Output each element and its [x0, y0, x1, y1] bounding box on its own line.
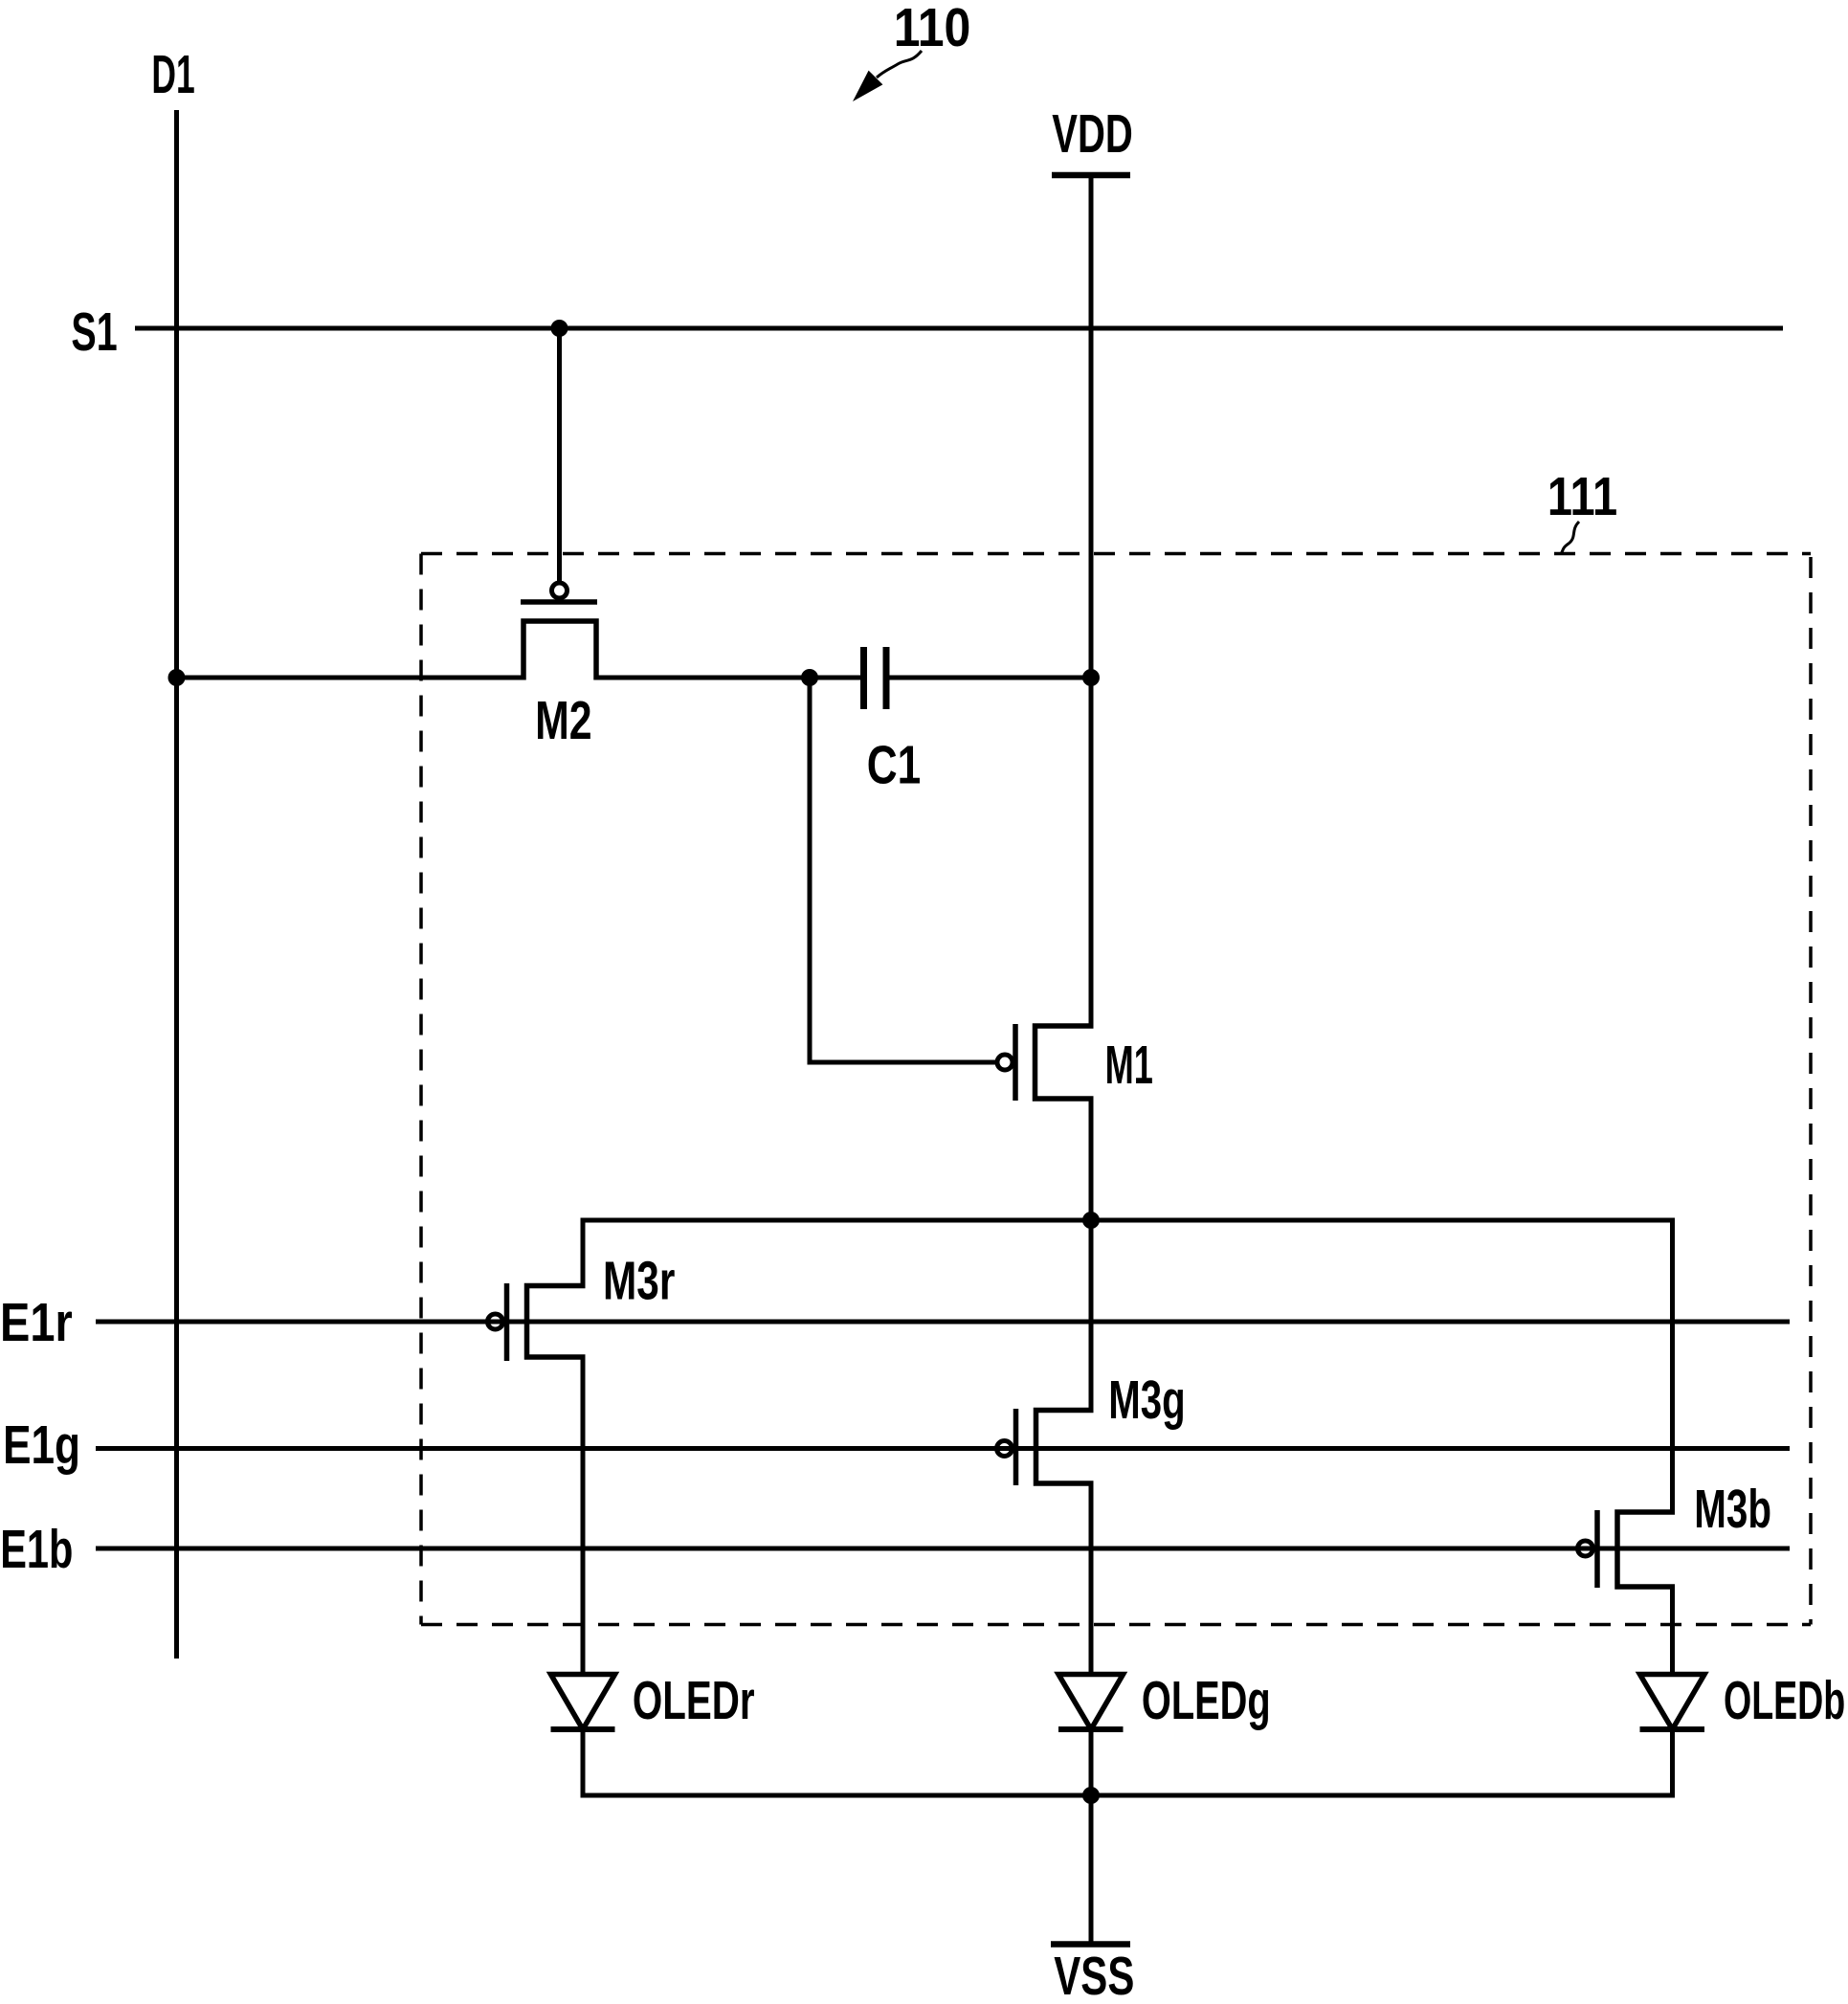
label M3r	[603, 1250, 675, 1311]
svg-text:E1b: E1b	[0, 1519, 73, 1580]
wire M3b drain from node row	[1670, 1220, 1675, 1512]
label C1	[867, 734, 921, 795]
diode OLEDg	[1058, 1675, 1124, 1730]
wire OLEDr cathode down	[581, 1729, 586, 1795]
junction dot M1 x node row	[1082, 1212, 1100, 1229]
label OLEDb	[1724, 1670, 1845, 1731]
wire VSS stem	[1089, 1795, 1094, 1942]
wire gate row from D1 to M2	[177, 676, 524, 680]
svg-text:M1: M1	[1105, 1035, 1153, 1096]
label OLEDg	[1142, 1671, 1271, 1731]
svg-text:M2: M2	[535, 689, 591, 750]
transistor M3b channel	[1617, 1512, 1675, 1587]
wire C1 right plate to VDD column	[890, 676, 1092, 680]
wire E1g horizontal line	[96, 1446, 1790, 1451]
wire M1 source to node row	[1089, 1099, 1094, 1220]
transistor M3r gate circle	[488, 1314, 503, 1329]
transistor M3b gate circle	[1578, 1541, 1593, 1556]
wire S1 horizontal scan line	[135, 326, 1783, 331]
transistor M3g gate circle	[997, 1441, 1013, 1457]
wire M3r source down to OLEDr	[581, 1357, 586, 1675]
label 111	[1547, 467, 1617, 527]
transistor M2 channel staple	[523, 621, 596, 680]
label M1	[1105, 1035, 1153, 1096]
label M3g	[1108, 1369, 1185, 1431]
wire OLEDb cathode down	[1670, 1729, 1675, 1795]
junction dot cathode rail x VSS	[1082, 1787, 1100, 1804]
svg-text:D1: D1	[151, 45, 194, 106]
arrow leader for 110	[853, 51, 922, 101]
wire M3b source down to OLEDb	[1670, 1587, 1675, 1675]
power VDD bar symbol	[1052, 172, 1130, 179]
svg-text:S1: S1	[71, 302, 117, 363]
node E1r label	[0, 1293, 73, 1353]
svg-text:VDD: VDD	[1052, 103, 1132, 165]
junction dot C1 x VDD column	[1082, 669, 1100, 686]
wire E1b horizontal line	[96, 1547, 1790, 1551]
wire OLEDg cathode down	[1089, 1729, 1094, 1795]
transistor M1 gate bar	[1013, 1024, 1018, 1101]
junction dot storage node	[801, 669, 818, 686]
node E1g label	[3, 1414, 80, 1476]
leader squiggle for 111	[1561, 522, 1579, 554]
capacitor C1 right plate	[883, 647, 890, 709]
capacitor C1 left plate	[860, 647, 867, 709]
wire D1 vertical data line	[174, 110, 179, 1659]
node E1b label	[0, 1519, 73, 1580]
wire M2 gate from S1	[557, 328, 562, 581]
svg-text:OLEDr: OLEDr	[633, 1670, 755, 1731]
wire E1r horizontal line	[96, 1320, 1790, 1325]
label M3b	[1694, 1479, 1771, 1539]
svg-text:OLEDg: OLEDg	[1142, 1671, 1271, 1731]
svg-text:110: 110	[894, 0, 971, 58]
svg-text:M3g: M3g	[1108, 1369, 1185, 1431]
transistor M3r gate bar	[504, 1283, 510, 1361]
wire storage node down to M1 gate	[810, 678, 996, 1062]
label OLEDr	[633, 1670, 755, 1731]
dashed box 111 pixel circuit	[421, 554, 1811, 1625]
transistor M3g gate bar	[1013, 1409, 1019, 1485]
transistor M1 channel	[1035, 1026, 1094, 1099]
junction dot D1 x gate row	[168, 669, 186, 686]
node D1 label	[151, 45, 194, 106]
wire bottom cathode rail	[581, 1793, 1676, 1798]
transistor M2 gate bar	[521, 599, 597, 605]
label M2	[535, 689, 591, 750]
svg-text:E1g: E1g	[3, 1414, 80, 1476]
transistor M3b gate bar	[1594, 1510, 1600, 1588]
svg-text:C1: C1	[867, 734, 921, 795]
power VSS bar symbol	[1051, 1941, 1130, 1948]
label 110	[894, 0, 971, 58]
node S1 label	[71, 302, 117, 363]
wire M3g drain from node row	[1089, 1220, 1094, 1410]
wire VDD stem down to M1	[1089, 178, 1094, 1026]
transistor M3g channel	[1036, 1411, 1094, 1484]
diode OLEDb	[1640, 1675, 1705, 1730]
transistor M1 gate circle	[997, 1055, 1013, 1070]
node VDD label	[1052, 103, 1132, 165]
svg-text:E1r: E1r	[0, 1293, 73, 1353]
svg-text:111: 111	[1547, 467, 1617, 527]
wire M3g source down to OLEDg	[1089, 1483, 1094, 1675]
junction dot S1 x M2 gate	[551, 320, 568, 337]
wire M2 to capacitor C1	[596, 676, 860, 680]
diode OLEDr	[551, 1675, 615, 1730]
transistor M3r channel	[527, 1286, 586, 1358]
transistor M2 gate circle	[552, 583, 568, 598]
svg-text:VSS: VSS	[1054, 1946, 1134, 2004]
svg-text:M3r: M3r	[603, 1250, 675, 1311]
node VSS label	[1054, 1946, 1134, 2004]
wire M3r drain up to node row	[581, 1220, 586, 1285]
svg-text:M3b: M3b	[1694, 1479, 1771, 1539]
svg-text:OLEDb: OLEDb	[1724, 1670, 1845, 1731]
wire node row horizontal	[581, 1218, 1676, 1223]
